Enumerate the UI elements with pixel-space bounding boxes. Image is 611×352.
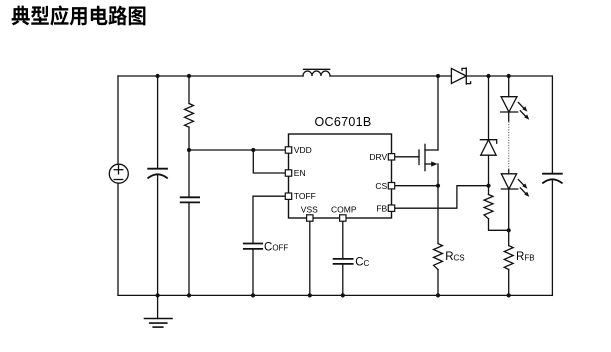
LED2 light arrows [518, 179, 529, 197]
wire top rail right [466, 76, 552, 174]
LED1 light arrows [518, 102, 529, 120]
resistor RCS [434, 244, 443, 270]
svg-text:VSS: VSS [301, 204, 318, 214]
svg-text:VDD: VDD [294, 145, 312, 155]
pin EN [285, 170, 291, 176]
wire input cap top [157, 76, 159, 169]
resistor RFB [504, 246, 513, 270]
wire output cap bottom [551, 180, 553, 296]
wire LED1 top [508, 76, 510, 97]
node top rail LED [507, 74, 511, 78]
wire FB [395, 186, 489, 209]
svg-text:RCS: RCS [445, 251, 464, 263]
node gnd COMP [341, 293, 345, 297]
node gnd C2 [187, 293, 191, 297]
wire Rcs bottom [437, 270, 439, 296]
capacitor C1 input [148, 169, 167, 178]
svg-text:TOFF: TOFF [294, 191, 316, 201]
diode D2 zener [480, 140, 496, 156]
svg-text:EN: EN [294, 168, 306, 178]
capacitor C3 output [543, 174, 562, 183]
wire voltage source top [117, 76, 119, 164]
LED LED1 [501, 97, 518, 112]
node gnd C1 [156, 293, 160, 297]
pin COMP [340, 215, 346, 221]
pin squares [285, 147, 394, 221]
resistor R2 [484, 195, 493, 219]
node FB zener [486, 184, 490, 188]
wire input cap bottom [157, 175, 159, 296]
wire filter cap bottom [188, 202, 190, 295]
ground symbol [145, 295, 173, 327]
wire filter resistor top [188, 76, 190, 104]
node gnd RFB [507, 293, 511, 297]
wire Rcs top [437, 186, 439, 244]
node top rail C1 [156, 74, 160, 78]
wire EN branch [253, 150, 285, 173]
wire COFF bottom [252, 249, 254, 296]
title 典型应用电路图 [12, 5, 146, 25]
node top rail drain [436, 74, 440, 78]
wire dotted LED continuation [508, 122, 510, 171]
transistor Q1 [419, 76, 438, 186]
node gnd COFF [251, 293, 255, 297]
diode D1 schottky [451, 68, 470, 84]
capacitor CC [334, 259, 353, 264]
svg-text:CC: CC [355, 256, 369, 268]
op-amp U1 OC6701B box [289, 134, 392, 218]
wire VSS down [309, 221, 311, 295]
wire LED2 top stub [508, 170, 510, 174]
node gnd RCS [436, 293, 440, 297]
pin TOFF [285, 193, 291, 199]
node gnd VSS [308, 293, 312, 297]
inductor L1 [303, 69, 330, 76]
capacitor COFF [244, 244, 262, 249]
node VDD filter [187, 148, 191, 152]
pin CS [388, 183, 394, 189]
wire zener top [488, 76, 490, 140]
node R2 LED [507, 228, 511, 232]
wire CC bottom [342, 264, 344, 296]
wire CS [395, 185, 438, 187]
capacitor C2 [181, 197, 199, 202]
pin VDD [285, 147, 291, 153]
wire LED1 bottom stub [508, 112, 510, 122]
wire filter cap top [188, 150, 190, 197]
resistor R1 [185, 104, 194, 128]
wire voltage source bottom [117, 183, 119, 295]
LED LED2 [501, 174, 518, 189]
wire top rail middle [330, 75, 451, 77]
node source CS [436, 184, 440, 188]
wire R2 to LED string [489, 219, 509, 231]
wire TOFF [253, 196, 285, 243]
wire LED2 bottom [508, 189, 510, 246]
wire zener bottom [488, 155, 490, 186]
svg-text:FB: FB [376, 203, 387, 213]
wire RFB bottom [508, 270, 510, 296]
voltage source VIN [109, 164, 128, 183]
wire R2 top [488, 186, 490, 195]
svg-text:RFB: RFB [516, 251, 535, 263]
node EN branch [251, 148, 255, 152]
svg-text:OC6701B: OC6701B [315, 115, 372, 129]
wire COMP down [342, 221, 344, 259]
pin DRV [388, 154, 394, 160]
svg-text:COMP: COMP [331, 204, 357, 214]
wire VDD [189, 149, 285, 151]
wire filter node [188, 127, 190, 150]
node top rail R1 [187, 74, 191, 78]
pin VSS [307, 215, 313, 221]
wire top rail left [118, 75, 303, 77]
wire ground rail [118, 294, 552, 296]
wire DRV [395, 156, 419, 158]
svg-text:CS: CS [375, 181, 387, 191]
node top rail zener [486, 74, 490, 78]
svg-text:COFF: COFF [264, 241, 288, 253]
svg-text:DRV: DRV [369, 152, 387, 162]
pin FB [388, 205, 394, 211]
